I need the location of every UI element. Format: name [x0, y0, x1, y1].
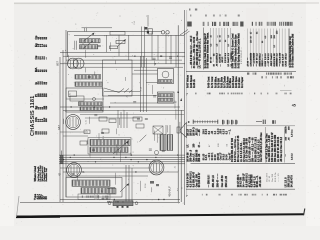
svg-text:.1: .1 — [115, 102, 117, 104]
svg-text:42: 42 — [58, 172, 62, 176]
svg-text:80: 80 — [44, 196, 48, 200]
svg-text:Rectifier Full: Rectifier Full — [45, 168, 48, 182]
svg-text:Osc .05 16: Osc .05 16 — [221, 175, 224, 187]
svg-text:— 90 2: — 90 2 — [209, 152, 211, 160]
svg-text:R-32 Spring Socket Cable Watt: R-32 Spring Socket Cable Watt — [237, 33, 240, 68]
svg-text:350 .05 1.5: 350 .05 1.5 — [212, 175, 215, 188]
svg-text:.1: .1 — [73, 48, 75, 50]
svg-text:6.3 8.: 6.3 8. — [206, 154, 208, 160]
svg-text:.05 I.F. 90: .05 I.F. 90 — [259, 176, 262, 187]
svg-text:90 .05: 90 .05 — [203, 153, 205, 160]
svg-text:90 90 1: 90 90 1 — [212, 152, 214, 160]
svg-text:6.3 3: 6.3 3 — [224, 128, 226, 134]
svg-text:350 25: 350 25 — [218, 152, 220, 160]
svg-text:R-38 Ohms Switch Carbon Dial: R-38 Ohms Switch Carbon Dial — [291, 33, 294, 67]
svg-text:I.F.: I.F. — [228, 34, 230, 37]
svg-text:R-21: R-21 — [70, 93, 72, 97]
svg-text:Osc 47 100 8.0 1.5 .05 Osc: Osc 47 100 8.0 1.5 .05 Osc — [260, 132, 263, 162]
svg-text:R-16 Volume Volume Nut Trans.: R-16 Volume Volume Nut Trans. — [206, 32, 209, 68]
svg-text:Osc 47 8: Osc 47 8 — [266, 172, 268, 182]
svg-text:.25: .25 — [175, 166, 177, 169]
svg-text:I.F. — 47 Osc 2.2 100 I.F.: I.F. — 47 Osc 2.2 100 I.F. 1. — [199, 38, 202, 68]
svg-text:.05 Osc 2.2 Osc 34 2.2: .05 Osc 2.2 Osc 34 2.2 — [280, 136, 283, 162]
svg-text:— — 1.5: — — 1.5 — [278, 173, 280, 182]
svg-text:— .05: — .05 — [198, 129, 201, 136]
svg-text:I.F.: I.F. — [271, 60, 273, 63]
svg-text:7: 7 — [186, 93, 188, 97]
svg-text:I.F.: I.F. — [285, 63, 287, 66]
svg-text:I.F.: I.F. — [228, 43, 230, 46]
svg-text:I.F.: I.F. — [188, 144, 190, 147]
svg-text:I.F.: I.F. — [228, 63, 230, 66]
svg-text:I.F. 16: I.F. 16 — [269, 175, 271, 182]
svg-text:I.F.: I.F. — [222, 56, 224, 59]
svg-text:R-14: R-14 — [145, 184, 147, 188]
svg-text:I.F.: I.F. — [274, 44, 276, 47]
svg-text:I.F.: I.F. — [228, 56, 230, 59]
svg-text:.02: .02 — [102, 190, 104, 193]
svg-text:— 1.: — 1. — [229, 129, 231, 134]
svg-text:90 6.3 Os: 90 6.3 Os — [275, 172, 277, 182]
svg-text:47 —: 47 — — [198, 141, 201, 147]
svg-text:.02: .02 — [176, 101, 178, 104]
svg-text:Where Used: Where Used — [33, 166, 37, 182]
svg-text:Osc 350: Osc 350 — [272, 173, 274, 182]
svg-text:R-70 Bracket Spring Dial Coi: R-70 Bracket Spring Dial Coi — [289, 36, 292, 68]
svg-text:R-28 I.F.: R-28 I.F. — [193, 79, 196, 88]
svg-text:90 100 8.0 47: 90 100 8.0 47 — [198, 172, 201, 187]
svg-text:.1: .1 — [69, 34, 71, 36]
svg-text:— 350 8.0 I: — 350 8.0 I — [208, 175, 211, 188]
svg-text:45: 45 — [292, 103, 296, 107]
svg-text:.05 8: .05 8 — [221, 128, 223, 134]
svg-text:34 6.3: 34 6.3 — [223, 153, 226, 160]
svg-text:.25: .25 — [127, 95, 129, 98]
svg-text:34 34: 34 34 — [226, 154, 229, 160]
svg-text:90 90: 90 90 — [215, 154, 217, 160]
svg-text:6B7: 6B7 — [56, 61, 60, 66]
svg-text:4564/LF: 4564/LF — [168, 186, 172, 197]
svg-text:.1: .1 — [103, 142, 105, 144]
svg-text:C-31: C-31 — [86, 120, 88, 124]
svg-text:C-4: C-4 — [134, 22, 136, 25]
svg-text:R-9: R-9 — [103, 136, 105, 139]
svg-text:R-9: R-9 — [131, 153, 133, 156]
svg-text:.1: .1 — [132, 22, 134, 24]
svg-text:6A7: 6A7 — [57, 125, 61, 130]
svg-text:250 .05: 250 .05 — [198, 153, 201, 162]
svg-text:34 .05 47 9: 34 .05 47 9 — [290, 175, 293, 188]
svg-text:R-14: R-14 — [141, 87, 143, 91]
svg-text:Osc I.F: Osc I.F — [221, 152, 223, 160]
svg-text:8.0 6.3 100 47 —: 8.0 6.3 100 47 — — [241, 46, 243, 64]
svg-text:100 I: 100 I — [203, 129, 205, 134]
svg-text:.1: .1 — [119, 134, 121, 136]
svg-text:.1: .1 — [133, 165, 135, 167]
svg-text:—: — — [216, 36, 218, 38]
svg-text:R-1 Paper: R-1 Paper — [241, 77, 244, 88]
svg-text:250 I.F. 25: 250 I.F. 25 — [225, 175, 228, 187]
svg-text:2.2 O: 2.2 O — [218, 128, 220, 134]
svg-text:CHASSIS 1181: CHASSIS 1181 — [30, 96, 36, 136]
